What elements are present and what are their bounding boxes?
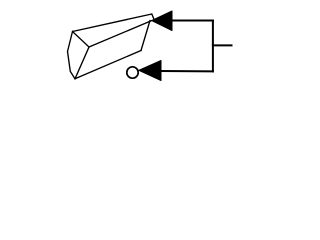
crystal bar far-end steep edge xyxy=(141,21,150,51)
circle at bottom arrow tip xyxy=(127,67,138,78)
terminal stub xyxy=(213,44,232,46)
crystal bar top edge xyxy=(73,14,152,32)
crystal bar end face (pentagon) xyxy=(68,32,90,79)
wire from bottom arrow to bus xyxy=(161,70,213,72)
crystal bar middle edge xyxy=(89,21,152,47)
crystal bar bottom edge xyxy=(75,51,141,79)
top arrow head xyxy=(152,11,172,31)
crystal bar far-end top edge xyxy=(152,14,155,21)
wire vertical bus xyxy=(212,21,214,72)
bottom arrow head xyxy=(139,60,161,80)
wire from top arrow to bus xyxy=(172,20,213,22)
